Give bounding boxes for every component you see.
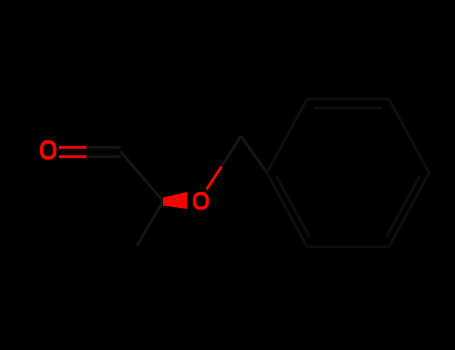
atom label O (ether oxygen) [195, 194, 208, 208]
benzene ring edge ipso to top-left [267, 99, 307, 173]
double bond C1=O upper line (carbon half, dark) [87, 146, 121, 149]
stereo wedge bond C2-O (red) [163, 192, 187, 209]
benzene ring bottom edge [307, 246, 389, 249]
aromatic inner double bond (top) [314, 107, 382, 110]
double bond C1=O lower line (red half near O) [59, 155, 88, 158]
benzene ring edge right to bottom-right [389, 173, 429, 247]
double bond C1=O lower line (carbon half, dark) [87, 155, 121, 158]
atom label O (aldehyde oxygen) [42, 142, 55, 158]
aromatic inner double bond (lower-right) [387, 176, 421, 238]
bond O-CH2 (carbon half, dark) [222, 136, 242, 167]
double bond C1=O upper line (red half near O) [59, 146, 88, 149]
bond C2-CH3 (methyl) [137, 201, 163, 246]
aromatic inner double bond (lower-left) [276, 176, 310, 238]
bond C1-C2 [120, 151, 163, 201]
bond O-CH2 (red half near O) [207, 167, 222, 190]
benzene ring edge top-right to right [389, 99, 429, 173]
benzene ring top edge [307, 98, 389, 101]
benzene ring edge bottom-left to ipso [267, 173, 307, 247]
bond CH2-C(ipso) [241, 136, 267, 173]
